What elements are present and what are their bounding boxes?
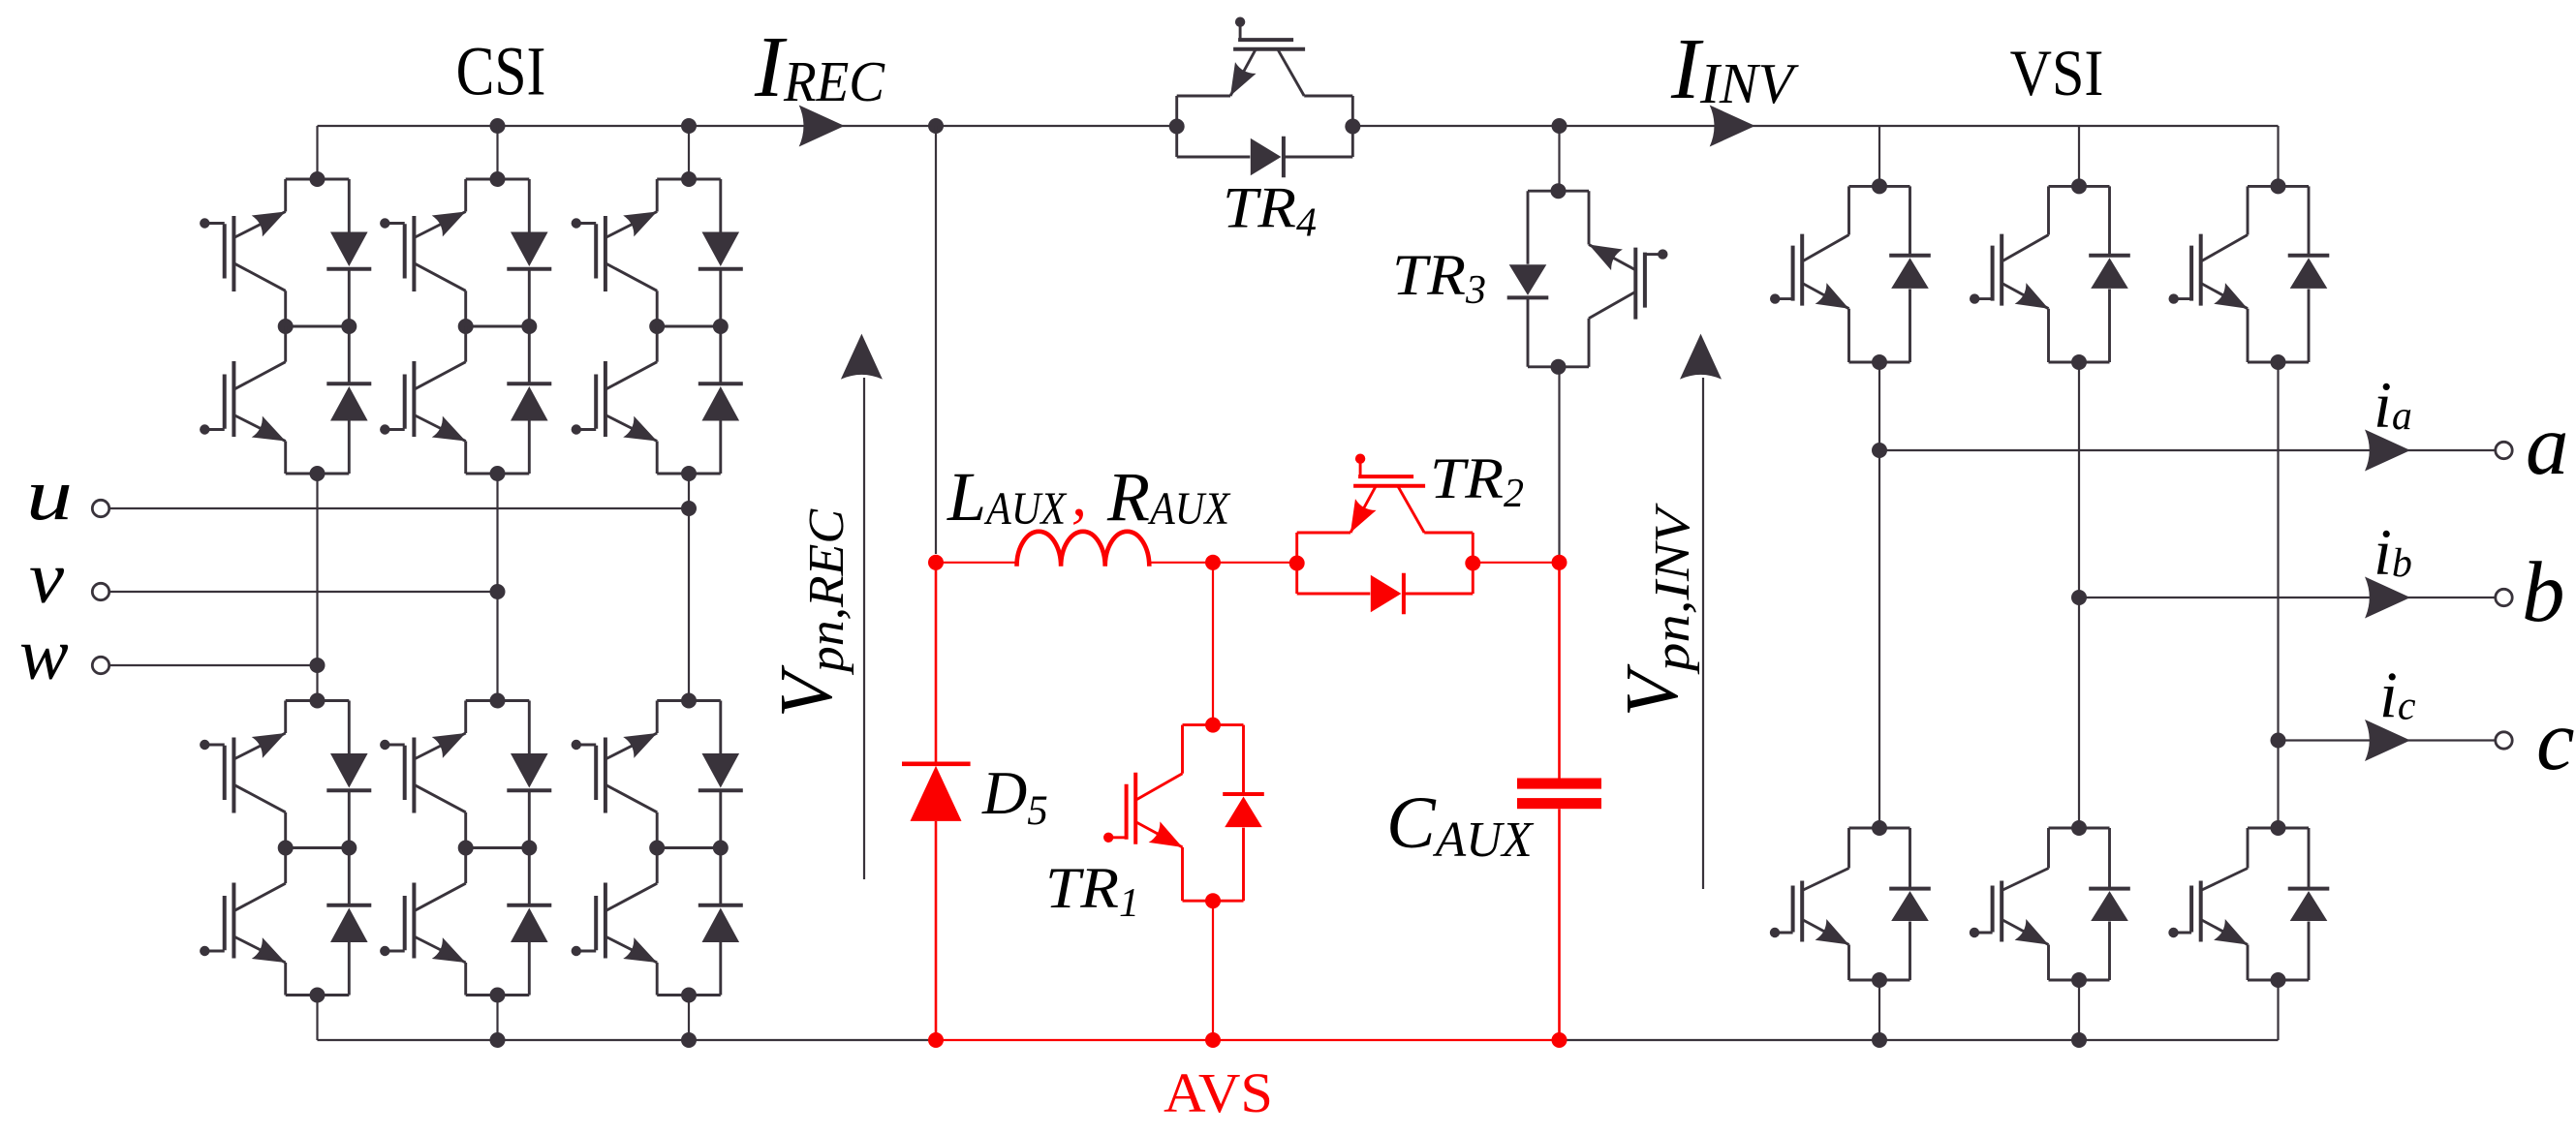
svg-text:a: a (2526, 398, 2569, 493)
CSI bidirectional switch cell (upper, leg3): two IGBTs + two series diodes (572, 171, 743, 481)
output line b with arrow i_b (2071, 577, 2512, 619)
wire: bottom rail red AVS segment (936, 1039, 1560, 1041)
transistor TR2 (red IGBT + antiparallel diode, horizontal) (1289, 454, 1481, 615)
wire: bottom DC rail (black part right) (1560, 1039, 2279, 1041)
svg-text:,: , (1071, 460, 1087, 529)
wire: CSI leg w vertical (688, 126, 690, 1040)
wire: TR3 bottom to red node (black) (1558, 366, 1560, 556)
svg-text:CSI: CSI (456, 33, 546, 110)
output line c with arrow i_c (2271, 720, 2513, 761)
CSI bidirectional switch cell (upper, leg1): two IGBTs + two series diodes (200, 171, 371, 481)
svg-text:v: v (29, 537, 64, 619)
VSI IGBT half-bridge upper switch (leg c) (2169, 178, 2330, 370)
wire: stub top rail to TR3 (1558, 126, 1560, 192)
terminal u (92, 500, 697, 516)
arrow V_pn,INV (1680, 334, 1722, 889)
VSI IGBT half-bridge lower switch (leg c) (2168, 820, 2329, 988)
svg-text:AVS: AVS (1164, 1061, 1273, 1124)
node: bottom rail red junctions (928, 1032, 1567, 1048)
node: bottom rail junctions (490, 1032, 2088, 1048)
wire: red from D5 node to inductor (936, 562, 1017, 564)
wire: CSI leg v vertical (496, 126, 498, 1040)
svg-text:VSI: VSI (2010, 36, 2104, 109)
current arrow I_REC on top rail (799, 106, 845, 147)
wire: VSI leg c vertical (2277, 126, 2279, 1040)
wire: red C_AUX column upper (1558, 563, 1561, 779)
svg-text:u: u (26, 454, 73, 536)
node: red AVS node at D5 top (928, 555, 944, 570)
wire: red TR1 column upper (1212, 563, 1214, 724)
VSI IGBT half-bridge lower switch (leg b) (1970, 820, 2130, 988)
arrow V_pn,REC (voltage reference arrow) (841, 334, 883, 879)
node: top rail junctions (490, 118, 1567, 134)
node: red node top of C_AUX column (1552, 555, 1567, 570)
wire: D5 branch vertical (black upper part) (935, 126, 937, 554)
svg-text:w: w (19, 614, 69, 695)
node: top rail to AVS/D5 branch (928, 118, 944, 134)
wire: red inductor to TR1 node (1149, 562, 1296, 564)
svg-text:c: c (2536, 693, 2575, 788)
CSI bidirectional switch cell (lower, leg3) (572, 693, 743, 1003)
transistor TR1 (red IGBT + antiparallel diode) (1103, 718, 1264, 909)
CSI bidirectional switch cell (lower, leg1) (200, 693, 371, 1003)
node: red node above TR1 (1205, 555, 1221, 570)
inductor L_AUX,R_AUX (3 arches) (1017, 532, 1150, 567)
wire: VSI leg b vertical (2078, 126, 2080, 1040)
diode D5 (red, pointing up) (902, 563, 971, 1040)
wire: red TR2 right to C_AUX column (1473, 562, 1560, 564)
output line a with arrow i_a (1872, 430, 2512, 472)
CSI bidirectional switch cell (lower, leg2) (380, 693, 551, 1003)
terminal v (92, 583, 505, 599)
VSI IGBT half-bridge lower switch (leg a) (1770, 820, 1931, 988)
svg-text:b: b (2522, 545, 2565, 640)
VSI IGBT half-bridge upper switch (leg b) (1970, 178, 2130, 370)
transistor TR3 (IGBT + antiparallel diode, vertical) (1507, 183, 1668, 375)
VSI IGBT half-bridge upper switch (leg a) (1770, 178, 1931, 370)
capacitor C_AUX (two thick plates) (1517, 779, 1601, 810)
CSI bidirectional switch cell (upper, leg2): two IGBTs + two series diodes (380, 171, 551, 481)
wire: CSI leg u vertical (316, 126, 318, 1040)
wire: VSI leg a vertical (1878, 126, 1880, 1040)
wire: top DC rail (left of TR4) (318, 125, 1177, 127)
transistor TR4 (IGBT + antiparallel diode, on top rail) (1169, 17, 1361, 178)
wire: bottom DC rail (black part left) (318, 1039, 937, 1041)
wire: top DC rail (right of TR4) (1352, 125, 2278, 127)
current arrow I_INV on top rail (1710, 106, 1755, 147)
wire: red TR1 column lower (1212, 902, 1214, 1040)
terminal w (92, 657, 325, 673)
wire: red C_AUX column lower (1558, 809, 1561, 1040)
